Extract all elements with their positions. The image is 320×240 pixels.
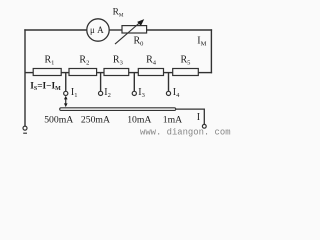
terminal I2 [99,91,103,95]
svg-text:1mA: 1mA [163,115,182,126]
resistor R3 [104,69,129,76]
terminal left bottom [23,126,27,130]
wire top-left horizontal from left corner to meter [24,29,87,31]
wire left vertical [24,29,26,126]
svg-text:I3: I3 [138,87,145,99]
svg-text:R4: R4 [146,55,157,67]
wire R3-R4 [129,72,139,74]
wire down to terminal I4 [168,73,170,92]
svg-text:IM: IM [197,36,206,48]
svg-text:500mA: 500mA [44,115,73,126]
wire R4-R5 [164,72,173,74]
wire down to terminal I1 [65,73,67,92]
svg-text:10mA: 10mA [127,115,151,126]
svg-text:R1: R1 [45,55,55,67]
wire middle row segment left [25,72,33,74]
wire meter to R0 [109,29,122,31]
terminal I3 [132,91,136,95]
svg-text:IS=I−IM: IS=I−IM [30,81,61,92]
wire R5 to right vertical [198,72,212,74]
wire R1-R2 [61,72,69,74]
svg-text:R5: R5 [181,55,191,67]
svg-text:I: I [197,112,200,123]
resistor R2 [69,69,97,76]
svg-text:RM: RM [113,8,124,19]
resistor R1 [33,69,61,76]
wire bar output to terminal I [176,109,204,124]
rheostat R0 [115,19,147,44]
svg-text:R3: R3 [113,55,123,67]
svg-text:250mA: 250mA [81,115,110,126]
svg-text:www. diangon. com: www. diangon. com [140,128,231,138]
wire down to terminal I2 [100,73,102,92]
terminal left polarity dash [23,133,27,134]
svg-text:I4: I4 [173,87,180,99]
wire R2-R3 [97,72,104,74]
resistor R4 [138,69,163,76]
svg-text:R0: R0 [134,36,144,48]
svg-text:μ A: μ A [90,25,104,35]
terminal I [202,124,206,128]
svg-text:I1: I1 [71,87,78,99]
selector bar [60,108,176,111]
wire down to terminal I3 [133,73,135,92]
svg-text:I2: I2 [104,87,111,99]
wire right vertical [210,29,212,73]
terminal I4 [166,91,170,95]
resistor R5 [173,69,199,76]
meter uA [87,19,109,41]
terminal I1 [64,91,68,95]
wire R0 to top-right corner [147,29,213,31]
svg-text:R2: R2 [79,55,89,67]
wiper contact double arrow [64,96,68,107]
